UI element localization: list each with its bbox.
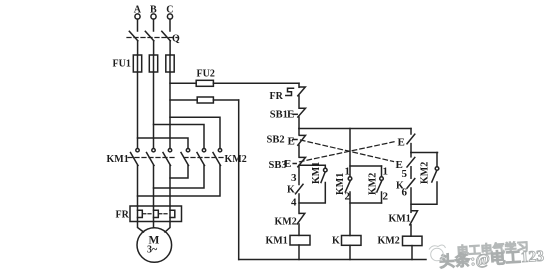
- svg-text:KM1: KM1: [266, 236, 288, 247]
- svg-text:A: A: [134, 5, 142, 16]
- svg-text:FR: FR: [270, 91, 284, 102]
- svg-text:KM1: KM1: [335, 173, 346, 195]
- svg-text:K: K: [287, 185, 295, 196]
- svg-text:3~: 3~: [147, 244, 158, 255]
- svg-text:E: E: [284, 158, 291, 170]
- svg-text:C: C: [166, 5, 173, 16]
- svg-text:KM2: KM2: [368, 173, 379, 195]
- svg-text:FU1: FU1: [113, 59, 131, 70]
- svg-text:SB2: SB2: [267, 135, 285, 146]
- svg-text:E: E: [288, 135, 295, 147]
- svg-text:KM2: KM2: [378, 236, 400, 247]
- svg-text:K: K: [332, 236, 340, 247]
- svg-text:4: 4: [291, 197, 297, 209]
- svg-text:6: 6: [402, 187, 408, 199]
- svg-text:B: B: [150, 5, 157, 16]
- svg-text:KM2: KM2: [275, 217, 297, 228]
- svg-text:3: 3: [291, 172, 297, 184]
- svg-text:FU2: FU2: [197, 68, 215, 79]
- svg-text:KM2: KM2: [420, 162, 431, 184]
- svg-text:E: E: [287, 109, 294, 121]
- svg-text:Q: Q: [172, 34, 180, 45]
- svg-text:KM1: KM1: [311, 162, 322, 184]
- svg-text:KM1: KM1: [107, 154, 129, 165]
- svg-text:5: 5: [402, 168, 408, 180]
- svg-text:1: 1: [383, 166, 389, 178]
- svg-text:E: E: [398, 137, 405, 149]
- svg-text:SB1: SB1: [270, 110, 288, 121]
- svg-text:KM1: KM1: [389, 214, 411, 225]
- svg-text:FR: FR: [116, 210, 130, 221]
- svg-text:KM2: KM2: [225, 154, 247, 165]
- svg-text:2: 2: [383, 191, 389, 203]
